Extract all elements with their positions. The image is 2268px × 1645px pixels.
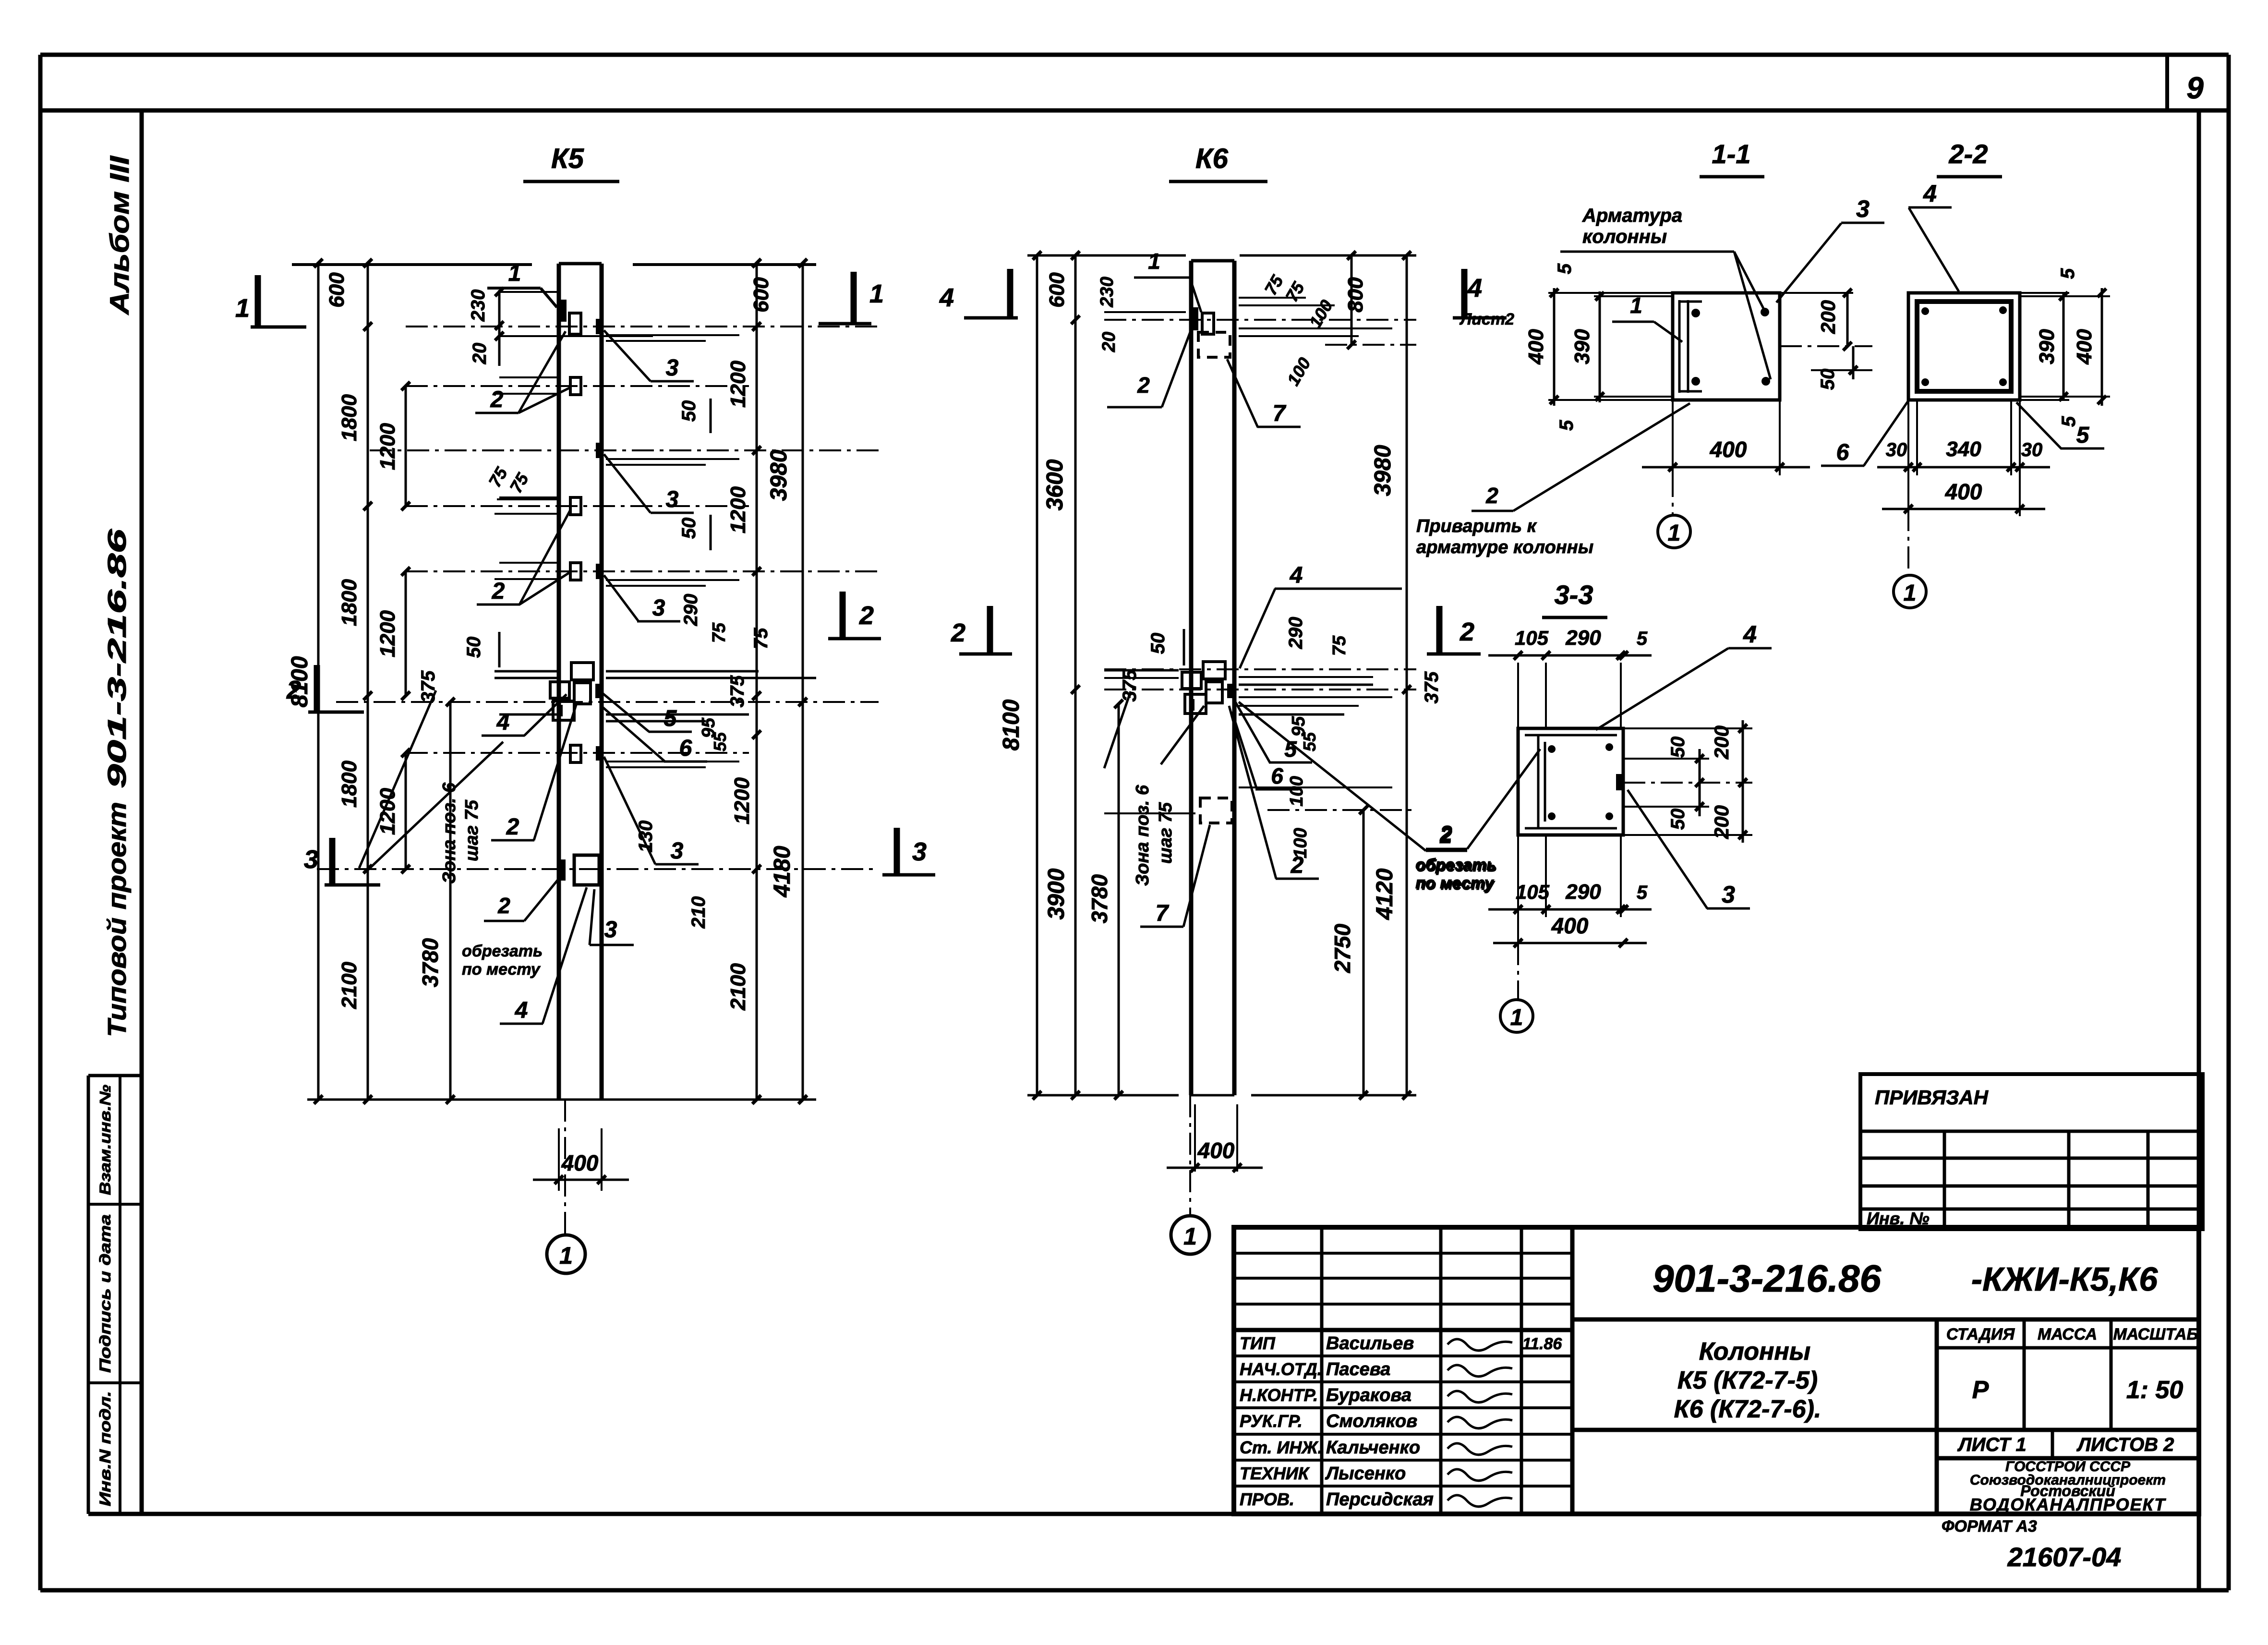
svg-text:5: 5 xyxy=(1554,263,1575,274)
K6 plates xyxy=(1193,307,1198,330)
svg-text:1200: 1200 xyxy=(376,423,399,470)
inner frame right xyxy=(2197,110,2201,1590)
svg-text:1200: 1200 xyxy=(730,777,754,824)
svg-text:3900: 3900 xyxy=(1044,868,1069,919)
svg-text:210: 210 xyxy=(688,896,709,929)
svg-text:4: 4 xyxy=(515,998,528,1023)
3-3 top dim xyxy=(1517,663,1519,728)
svg-text:Лист2: Лист2 xyxy=(1459,310,1514,328)
svg-text:3-3: 3-3 xyxy=(1555,580,1593,610)
svg-text:Васильев: Васильев xyxy=(1326,1333,1414,1354)
svg-text:200: 200 xyxy=(1710,726,1733,760)
svg-text:390: 390 xyxy=(2035,329,2059,364)
svg-text:3: 3 xyxy=(671,838,684,864)
svg-text:МАСШТАБ: МАСШТАБ xyxy=(2113,1325,2198,1343)
svg-text:3: 3 xyxy=(1856,195,1870,222)
svg-text:2100: 2100 xyxy=(338,962,361,1009)
svg-text:50: 50 xyxy=(1667,809,1689,830)
svg-text:50: 50 xyxy=(1817,369,1838,390)
svg-text:7: 7 xyxy=(1156,901,1170,926)
svg-text:901-3-216.86: 901-3-216.86 xyxy=(1653,1257,1881,1300)
section 1-1 square xyxy=(1673,293,1780,400)
svg-text:20: 20 xyxy=(1099,332,1119,352)
svg-text:3980: 3980 xyxy=(1370,445,1396,496)
svg-text:6: 6 xyxy=(1836,440,1849,465)
svg-text:1800: 1800 xyxy=(338,394,361,441)
K6 bottom axis xyxy=(1189,1095,1191,1216)
svg-text:2: 2 xyxy=(951,618,965,647)
svg-text:375: 375 xyxy=(418,670,439,702)
svg-text:2: 2 xyxy=(1439,821,1452,846)
svg-text:290: 290 xyxy=(680,594,701,627)
svg-text:Типовой проект: Типовой проект xyxy=(103,802,132,1037)
svg-text:Р: Р xyxy=(1972,1376,1989,1404)
1-1 left dims xyxy=(1553,288,1556,406)
svg-text:30: 30 xyxy=(1886,439,1907,460)
svg-text:ТИП: ТИП xyxy=(1240,1333,1276,1353)
svg-text:Смоляков: Смоляков xyxy=(1326,1411,1417,1431)
left margin small table xyxy=(88,1074,142,1077)
svg-text:3: 3 xyxy=(652,595,665,621)
K6 left chain 600/3600/3900 xyxy=(1074,255,1077,1095)
svg-text:3: 3 xyxy=(1722,881,1735,908)
svg-text:ЛИСТОВ 2: ЛИСТОВ 2 xyxy=(2076,1434,2174,1455)
page number box xyxy=(2165,56,2169,110)
K5 left dim chain 1200s xyxy=(405,386,407,506)
svg-text:3: 3 xyxy=(304,845,318,874)
svg-text:Подпись и дата: Подпись и дата xyxy=(97,1214,114,1373)
svg-text:3: 3 xyxy=(666,487,679,512)
section 2-2 square xyxy=(1908,293,2020,400)
top strip line / inner frame top xyxy=(40,109,2229,113)
svg-text:400: 400 xyxy=(2073,329,2096,365)
svg-text:5: 5 xyxy=(2058,416,2079,427)
svg-text:105: 105 xyxy=(1516,881,1550,903)
svg-text:Кальченко: Кальченко xyxy=(1326,1438,1420,1458)
svg-text:6: 6 xyxy=(1271,763,1283,788)
3-3 axis bubble xyxy=(1517,943,1519,1000)
K6 section flags 4 xyxy=(964,316,1018,320)
svg-text:105: 105 xyxy=(1515,627,1549,649)
svg-text:5: 5 xyxy=(664,706,677,731)
1-1 bottom dim xyxy=(1672,400,1674,475)
svg-text:55: 55 xyxy=(710,732,730,751)
svg-text:1: 1 xyxy=(869,279,884,308)
svg-text:1200: 1200 xyxy=(376,610,399,657)
outer border xyxy=(40,53,2229,57)
svg-text:1: 1 xyxy=(508,261,521,286)
K5 left dim chain 8100 xyxy=(317,263,320,1100)
svg-text:11.86: 11.86 xyxy=(1522,1335,1563,1353)
svg-text:130: 130 xyxy=(635,821,656,853)
svg-text:3: 3 xyxy=(912,837,927,866)
svg-text:4: 4 xyxy=(1467,274,1482,302)
svg-text:арматуре колонны: арматуре колонны xyxy=(1416,537,1593,557)
svg-text:РУК.ГР.: РУК.ГР. xyxy=(1240,1411,1303,1431)
svg-text:2: 2 xyxy=(286,676,301,704)
svg-text:1200: 1200 xyxy=(726,486,750,533)
svg-text:К6 (К72-7-6).: К6 (К72-7-6). xyxy=(1674,1395,1822,1423)
privyazan table xyxy=(1860,1074,2203,1229)
svg-text:ПРОВ.: ПРОВ. xyxy=(1240,1489,1294,1509)
svg-text:ФОРМАТ А3: ФОРМАТ А3 xyxy=(1942,1517,2037,1536)
svg-text:3780: 3780 xyxy=(418,938,443,987)
svg-text:Инв.N подл.: Инв.N подл. xyxy=(97,1391,114,1506)
svg-text:75: 75 xyxy=(709,622,729,643)
svg-text:200: 200 xyxy=(1817,300,1839,334)
svg-text:Персидская: Персидская xyxy=(1326,1489,1434,1510)
svg-text:3980: 3980 xyxy=(766,449,792,501)
K5 bottom axis xyxy=(564,1100,566,1235)
svg-text:Пасева: Пасева xyxy=(1326,1359,1390,1379)
svg-text:Арматура: Арматура xyxy=(1582,205,1682,226)
svg-text:1: 1 xyxy=(1183,1223,1197,1250)
svg-text:1200: 1200 xyxy=(726,361,750,408)
svg-text:6: 6 xyxy=(679,736,692,761)
svg-text:901-3-216.86: 901-3-216.86 xyxy=(103,528,132,788)
3-3 right dims xyxy=(1623,782,1752,784)
K5 3780 line xyxy=(449,702,452,1100)
K5 right dim chain 600/1200/1200/375/1200/2100 xyxy=(756,263,758,1100)
svg-text:1: 1 xyxy=(235,294,250,323)
svg-text:400: 400 xyxy=(1551,913,1589,938)
title block xyxy=(1234,1227,2199,1514)
svg-text:Ст. ИНЖ.: Ст. ИНЖ. xyxy=(1240,1438,1323,1457)
inner frame left xyxy=(140,110,144,1514)
svg-text:7: 7 xyxy=(1273,401,1287,426)
svg-text:обрезать: обрезать xyxy=(1415,856,1496,874)
svg-text:4: 4 xyxy=(1923,180,1937,207)
svg-text:2: 2 xyxy=(859,601,874,630)
svg-text:1800: 1800 xyxy=(338,579,361,626)
2-2 axis bubble xyxy=(1907,509,1909,575)
svg-text:50: 50 xyxy=(678,400,700,422)
svg-text:1200: 1200 xyxy=(376,788,399,835)
K5 left dim chain 600/1800/1800/1800/2100 xyxy=(367,263,369,1100)
svg-text:50: 50 xyxy=(1667,737,1689,758)
svg-text:390: 390 xyxy=(1570,329,1594,364)
svg-text:4: 4 xyxy=(496,710,510,735)
svg-text:ТЕХНИК: ТЕХНИК xyxy=(1240,1464,1310,1483)
svg-text:Приварить к: Приварить к xyxy=(1416,516,1537,536)
K5 right dim chain 3980/4180 xyxy=(802,263,804,1100)
svg-text:1800: 1800 xyxy=(338,761,361,808)
3-3 bottom dims xyxy=(1517,835,1519,951)
svg-text:400: 400 xyxy=(1197,1138,1235,1163)
svg-text:1: 1 xyxy=(1148,249,1160,274)
svg-text:5: 5 xyxy=(2057,268,2078,279)
1-1 right dims xyxy=(1846,293,1849,346)
svg-text:2: 2 xyxy=(1137,373,1150,398)
svg-text:Зона поз. 6: Зона поз. 6 xyxy=(1133,785,1153,886)
K6 section flags 2 xyxy=(959,653,1012,656)
svg-text:290: 290 xyxy=(1565,626,1601,650)
svg-text:2: 2 xyxy=(497,893,510,918)
K5 centerlines xyxy=(406,326,879,327)
svg-text:обрезать: обрезать xyxy=(462,942,543,960)
svg-text:Н.КОНТР.: Н.КОНТР. xyxy=(1240,1385,1318,1405)
svg-text:Буракова: Буракова xyxy=(1326,1385,1411,1405)
svg-text:Колонны: Колонны xyxy=(1699,1338,1810,1366)
svg-text:1: 1 xyxy=(1668,520,1681,546)
section 3-3 square xyxy=(1518,728,1623,835)
svg-text:50: 50 xyxy=(1147,633,1169,654)
svg-text:ПРИВЯЗАН: ПРИВЯЗАН xyxy=(1875,1086,1989,1109)
svg-text:Лысенко: Лысенко xyxy=(1325,1464,1406,1484)
svg-text:2: 2 xyxy=(490,387,504,412)
svg-text:4120: 4120 xyxy=(1372,868,1398,920)
svg-text:55: 55 xyxy=(1300,732,1319,751)
svg-text:НАЧ.ОТД.: НАЧ.ОТД. xyxy=(1240,1359,1322,1379)
svg-text:30: 30 xyxy=(2021,439,2043,460)
2-2 right dims xyxy=(2020,292,2069,294)
svg-text:800: 800 xyxy=(1344,277,1367,313)
svg-text:200: 200 xyxy=(1710,805,1733,839)
K6 left chain 8100 xyxy=(1036,255,1038,1095)
svg-text:2: 2 xyxy=(492,579,505,604)
svg-text:375: 375 xyxy=(727,675,748,707)
svg-text:375: 375 xyxy=(1421,671,1442,703)
svg-text:ВОДОКАНАЛПРОЕКТ: ВОДОКАНАЛПРОЕКТ xyxy=(1970,1495,2166,1514)
svg-text:400: 400 xyxy=(561,1150,599,1175)
svg-text:50: 50 xyxy=(678,518,700,539)
svg-text:290: 290 xyxy=(1285,617,1306,650)
svg-text:2: 2 xyxy=(1485,483,1498,508)
svg-text:4: 4 xyxy=(939,283,954,312)
column K5 body xyxy=(557,264,561,1100)
svg-text:1: 1 xyxy=(559,1242,573,1269)
svg-text:5: 5 xyxy=(1556,420,1577,431)
svg-text:75: 75 xyxy=(750,628,772,649)
svg-text:Взам.инв.№: Взам.инв.№ xyxy=(97,1085,114,1195)
svg-text:4180: 4180 xyxy=(770,846,795,897)
svg-text:230: 230 xyxy=(1097,277,1117,307)
svg-text:1: 1 xyxy=(1510,1005,1523,1030)
svg-text:2: 2 xyxy=(1291,853,1304,878)
svg-text:20: 20 xyxy=(469,343,490,365)
svg-text:8100: 8100 xyxy=(999,699,1024,750)
2-2 bottom dims xyxy=(1907,400,1909,516)
svg-text:75: 75 xyxy=(1329,635,1350,656)
svg-text:400: 400 xyxy=(1524,329,1548,365)
svg-text:2: 2 xyxy=(1460,617,1474,646)
svg-text:100: 100 xyxy=(1287,776,1307,806)
K5 bottom tick line xyxy=(307,1099,816,1101)
svg-text:по месту: по месту xyxy=(1415,874,1495,892)
svg-text:-КЖИ-К5,К6: -КЖИ-К5,К6 xyxy=(1971,1260,2158,1298)
K5 section flags xyxy=(251,326,306,329)
svg-text:1-1: 1-1 xyxy=(1712,139,1751,169)
svg-text:400: 400 xyxy=(1945,479,1982,504)
svg-text:21607-04: 21607-04 xyxy=(2007,1542,2122,1572)
svg-text:2-2: 2-2 xyxy=(1949,139,1988,169)
K6 top/bottom tick lines xyxy=(1027,254,1186,257)
inner frame bottom xyxy=(88,1512,2199,1516)
svg-text:290: 290 xyxy=(1565,880,1601,904)
svg-text:50: 50 xyxy=(463,637,484,658)
svg-text:2100: 2100 xyxy=(726,963,750,1011)
svg-text:шаг 75: шаг 75 xyxy=(462,799,482,861)
svg-text:МАССА: МАССА xyxy=(2038,1325,2097,1343)
svg-text:Зона поз. 6: Зона поз. 6 xyxy=(439,782,459,883)
svg-text:по месту: по месту xyxy=(462,960,541,979)
svg-text:3780: 3780 xyxy=(1087,874,1112,923)
svg-text:340: 340 xyxy=(1946,437,1981,461)
svg-text:3600: 3600 xyxy=(1042,459,1068,510)
K6 weld stitch lines xyxy=(1239,327,1392,329)
svg-text:4: 4 xyxy=(1743,621,1757,648)
svg-text:2: 2 xyxy=(506,814,519,840)
svg-text:600: 600 xyxy=(325,272,349,308)
svg-text:230: 230 xyxy=(468,290,489,322)
svg-text:колонны: колонны xyxy=(1582,226,1667,247)
column K6 body xyxy=(1189,261,1194,1095)
svg-text:СТАДИЯ: СТАДИЯ xyxy=(1946,1325,2015,1343)
svg-text:3: 3 xyxy=(666,355,679,381)
svg-text:1: 50: 1: 50 xyxy=(2126,1376,2184,1404)
svg-text:3: 3 xyxy=(604,917,617,943)
1-1 axis bubble xyxy=(1672,400,1674,516)
svg-text:9: 9 xyxy=(2186,71,2204,105)
svg-text:шаг 75: шаг 75 xyxy=(1156,802,1176,864)
K6 centerlines xyxy=(1104,319,1416,321)
svg-text:К5: К5 xyxy=(551,143,584,174)
svg-text:ЛИСТ 1: ЛИСТ 1 xyxy=(1957,1434,2026,1455)
svg-text:600: 600 xyxy=(1045,272,1069,308)
svg-text:4: 4 xyxy=(1290,563,1303,588)
K6 3780 chain xyxy=(1118,704,1120,1095)
svg-text:Альбом III: Альбом III xyxy=(104,155,134,315)
svg-text:К5 (К72-7-5): К5 (К72-7-5) xyxy=(1677,1367,1818,1394)
svg-text:5: 5 xyxy=(1637,628,1648,649)
K5 embedded plates xyxy=(561,300,567,322)
svg-text:1: 1 xyxy=(1904,581,1917,606)
svg-text:2750: 2750 xyxy=(1330,923,1355,973)
svg-text:400: 400 xyxy=(1710,437,1747,462)
svg-text:К6: К6 xyxy=(1195,143,1229,174)
K6 right chains xyxy=(1406,255,1408,1095)
svg-text:600: 600 xyxy=(749,277,773,313)
svg-text:5: 5 xyxy=(1637,882,1648,903)
K5 weld stitch lines xyxy=(606,334,739,336)
K5 top tick line xyxy=(292,263,532,266)
